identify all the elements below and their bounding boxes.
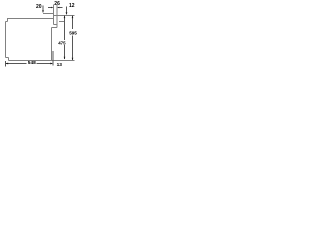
svg-text:20: 20 (36, 4, 42, 10)
svg-text:13: 13 (57, 62, 63, 68)
svg-text:475: 475 (58, 40, 66, 45)
svg-text:12: 12 (69, 3, 75, 9)
svg-text:548: 548 (28, 60, 36, 66)
svg-text:26: 26 (54, 1, 60, 7)
svg-text:595: 595 (69, 30, 77, 35)
